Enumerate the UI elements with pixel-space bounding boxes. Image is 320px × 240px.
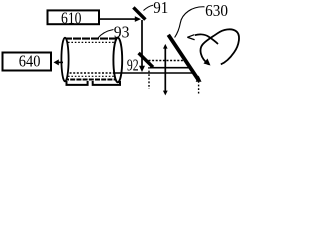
dotted wire down from 92 — [148, 67, 150, 89]
label 93 leader — [98, 30, 114, 39]
rod right end face — [113, 38, 122, 83]
rod mount left — [67, 81, 88, 85]
rod inner dotted top — [68, 41, 114, 43]
beam from 92 tip to 630 — [150, 67, 190, 69]
svg-text:640: 640 — [19, 52, 41, 71]
rod left end face — [61, 38, 68, 82]
arrow from rod into 640 — [54, 59, 64, 65]
dotted beam inside rod 93 — [66, 72, 114, 74]
svg-text:92: 92 — [127, 55, 139, 74]
dotted beam from 92 to 630 — [149, 60, 185, 62]
wire down from 91 — [139, 20, 145, 72]
mirror 91 — [133, 7, 145, 19]
rotation arrows — [187, 29, 239, 65]
rod inner dotted bottom — [68, 75, 114, 77]
mirror 630 — [168, 35, 198, 80]
svg-text:610: 610 — [61, 9, 82, 28]
label 91 leader — [144, 5, 154, 10]
box 610 — [48, 9, 100, 28]
rod mount right — [93, 81, 120, 85]
vertical beam with up/down arrows — [163, 44, 168, 96]
dotted axis with up arrow below 630 — [196, 76, 202, 94]
beam from rod to 630 — [113, 72, 193, 74]
svg-text:91: 91 — [153, 0, 168, 17]
svg-text:630: 630 — [205, 1, 228, 20]
laser rod 93 top edge — [64, 38, 118, 40]
rod bottom edge — [64, 79, 118, 81]
mirror 92 — [139, 53, 153, 67]
svg-text:93: 93 — [114, 23, 130, 42]
wire from 610 to mirror 91 — [100, 16, 141, 22]
box 640 — [3, 52, 52, 71]
label 630 leader — [175, 7, 205, 38]
